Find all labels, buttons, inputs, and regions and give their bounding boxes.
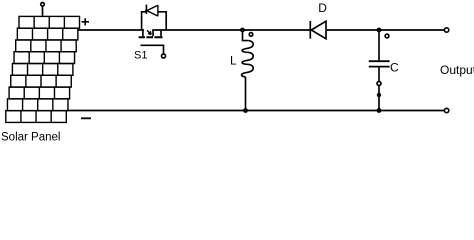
svg-text:Output: Output [440, 63, 474, 77]
svg-text:D: D [318, 1, 327, 15]
svg-text:S1: S1 [134, 50, 147, 62]
svg-text:L: L [230, 54, 237, 68]
svg-text:C: C [390, 60, 399, 74]
svg-text:Solar Panel: Solar Panel [1, 132, 60, 142]
